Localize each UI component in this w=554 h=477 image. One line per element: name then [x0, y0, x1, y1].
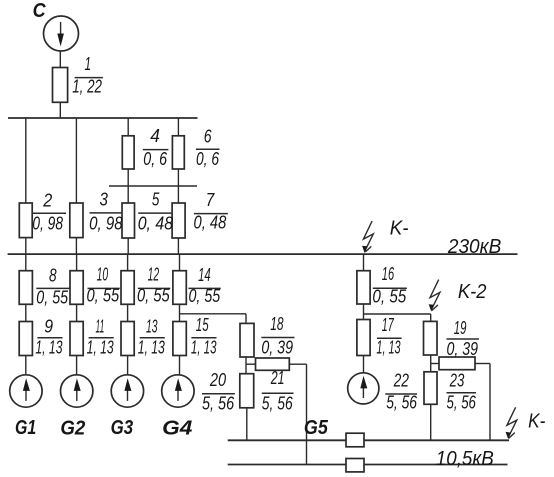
svg-text:8: 8	[49, 265, 57, 285]
svg-text:1, 22: 1, 22	[72, 77, 102, 97]
svg-text:0, 48: 0, 48	[194, 213, 227, 233]
svg-text:22: 22	[393, 371, 409, 391]
svg-text:10,5кВ: 10,5кВ	[436, 448, 494, 470]
svg-text:0, 39: 0, 39	[447, 339, 479, 359]
svg-text:16: 16	[382, 264, 395, 284]
svg-text:5: 5	[152, 190, 160, 210]
svg-text:0, 39: 0, 39	[261, 338, 293, 358]
svg-text:5, 56: 5, 56	[447, 393, 477, 413]
svg-text:0, 98: 0, 98	[89, 214, 123, 234]
svg-text:15: 15	[196, 315, 209, 335]
svg-text:12: 12	[148, 265, 160, 285]
svg-text:0, 55: 0, 55	[372, 287, 407, 307]
svg-text:21: 21	[270, 368, 284, 388]
svg-text:230кВ: 230кВ	[447, 236, 501, 258]
svg-text:1, 13: 1, 13	[35, 337, 62, 357]
svg-text:K-: K-	[390, 218, 409, 240]
svg-text:K-: K-	[528, 410, 545, 432]
svg-text:G4: G4	[162, 418, 192, 440]
svg-text:5, 56: 5, 56	[202, 393, 235, 413]
svg-text:4: 4	[150, 126, 160, 146]
svg-text:10: 10	[97, 265, 109, 285]
svg-text:G5: G5	[304, 417, 329, 439]
svg-text:9: 9	[44, 317, 53, 337]
svg-text:0, 55: 0, 55	[189, 286, 221, 306]
svg-text:7: 7	[206, 190, 215, 210]
svg-text:0, 6: 0, 6	[143, 149, 168, 169]
svg-text:1, 13: 1, 13	[376, 338, 400, 358]
svg-text:11: 11	[96, 317, 105, 337]
svg-text:3: 3	[100, 190, 108, 210]
svg-text:0, 55: 0, 55	[137, 286, 170, 306]
svg-text:5, 56: 5, 56	[386, 393, 418, 413]
svg-text:1, 13: 1, 13	[87, 337, 114, 357]
svg-text:0, 55: 0, 55	[87, 286, 120, 306]
svg-text:1, 13: 1, 13	[138, 337, 165, 357]
svg-text:19: 19	[454, 318, 467, 338]
svg-text:0, 6: 0, 6	[196, 149, 220, 169]
svg-text:G3: G3	[111, 417, 134, 439]
svg-text:18: 18	[270, 314, 283, 334]
svg-text:G2: G2	[60, 417, 85, 439]
svg-text:5, 56: 5, 56	[262, 393, 294, 413]
svg-text:0, 55: 0, 55	[36, 287, 69, 307]
svg-text:2: 2	[42, 191, 52, 211]
svg-text:G1: G1	[15, 417, 36, 439]
svg-text:0, 48: 0, 48	[138, 214, 173, 234]
svg-text:17: 17	[382, 315, 394, 335]
svg-text:0, 98: 0, 98	[32, 214, 63, 234]
svg-text:6: 6	[204, 127, 213, 147]
svg-text:23: 23	[449, 371, 464, 391]
svg-text:C: C	[33, 0, 46, 22]
svg-text:20: 20	[209, 370, 226, 390]
svg-text:14: 14	[198, 265, 211, 285]
svg-text:1: 1	[85, 54, 92, 74]
svg-text:1, 13: 1, 13	[191, 337, 217, 357]
svg-text:K-2: K-2	[458, 281, 487, 303]
svg-text:13: 13	[146, 317, 158, 337]
